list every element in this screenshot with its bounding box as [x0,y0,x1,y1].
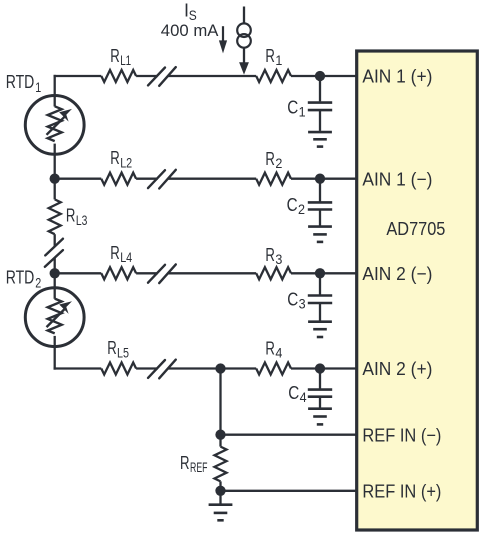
arrowhead current source into row1 [239,62,249,74]
svg-text:AIN 1 (+): AIN 1 (+) [362,66,432,87]
wire row2 into AIN 1 (-) [291,178,357,180]
RTD1 arrowhead [59,109,72,122]
capacitor C4 plates [308,388,332,391]
resistor R2 [256,173,291,185]
wire RTD1 bottom lead [54,144,56,179]
svg-text:1: 1 [299,105,306,120]
line break row2 [148,170,176,189]
svg-text:RTD: RTD [6,268,35,288]
current source IS symbol [237,23,251,47]
RTD1 element zigzag [48,106,62,141]
svg-text:R: R [66,206,76,226]
wire row3 left segment [55,272,102,274]
svg-text:C: C [287,290,298,310]
junction node row3/C3 [315,268,325,278]
svg-text:400 mA: 400 mA [161,21,219,40]
wire RL3 bottom lead [54,234,56,247]
wire row1 into AIN 1 (+) [291,75,357,77]
svg-text:AIN 2 (+): AIN 2 (+) [362,358,432,379]
ground below Rref [209,505,233,521]
svg-text:AIN 2 (−): AIN 2 (−) [362,263,432,284]
wire RTD2 bottom lead [54,336,56,370]
RTD2 sensor circle [25,288,84,347]
svg-text:L1: L1 [120,53,131,68]
wire row3 mid segment [136,272,158,274]
junction node row1/C1 [315,71,325,81]
svg-text:R: R [265,245,275,265]
line break row4 [148,360,176,379]
wire RL3 top lead [54,179,56,200]
wire current source bottom lead [243,48,245,65]
wire current source top lead [243,7,245,24]
RTD2 element zigzag [48,299,62,334]
wire row4 left segment [54,367,102,369]
junction node row4/Rref [215,363,225,373]
wire row1 mid segment [136,75,158,77]
resistor RL3 [49,199,61,234]
svg-text:3: 3 [299,297,306,312]
resistor R1 [256,70,291,82]
resistor RL5 [101,363,136,375]
svg-text:3: 3 [275,252,282,267]
wire C4 bottom lead [319,397,321,409]
resistor RL4 [101,267,136,279]
junction node REF IN (+) [215,486,225,496]
svg-text:L3: L3 [76,213,88,228]
wire row2 left segment [55,178,102,180]
resistor RL1 [101,70,136,82]
IC U1 AD7705 body [357,51,478,530]
line break RL3 (vertical wire) [45,239,63,267]
svg-text:REF: REF [190,460,208,475]
svg-text:L2: L2 [120,156,132,171]
wire row4 segment through Rref node [168,367,256,369]
resistor RREF [215,447,227,482]
wire REF IN (-) [221,434,357,436]
svg-text:AD7705: AD7705 [386,218,445,239]
resistor RL2 [101,173,136,185]
svg-text:4: 4 [275,346,282,361]
svg-text:R: R [110,46,120,66]
wire row3 into AIN 2 (-) [291,272,357,274]
svg-text:REF IN (+): REF IN (+) [362,480,441,501]
junction node row2 left [50,174,60,184]
arrow 400 mA shaft [222,26,224,42]
wire row1 segment to R1 [168,75,256,77]
resistor R4 [256,363,291,375]
wire C3 top lead [319,273,321,295]
wire REF IN (+) [221,490,357,492]
svg-text:L4: L4 [120,250,132,265]
svg-text:R: R [265,339,275,359]
line break row1 [148,67,176,86]
ground below C2 [308,227,332,242]
svg-text:REF IN (−): REF IN (−) [362,424,441,445]
junction node row3 left [50,268,60,278]
wire row2 mid segment [136,178,158,180]
svg-text:C: C [287,195,298,215]
svg-text:1: 1 [275,53,282,68]
RTD2 arrow shaft [47,309,65,327]
wire C2 bottom lead [319,210,321,227]
svg-text:1: 1 [35,80,41,95]
svg-text:R: R [107,338,117,358]
wire row4 mid segment [136,367,158,369]
svg-text:2: 2 [298,202,305,217]
svg-text:C: C [288,383,299,403]
wire Rref top lead [219,435,221,447]
svg-text:AIN 1 (−): AIN 1 (−) [362,168,432,189]
svg-text:2: 2 [35,275,41,290]
svg-text:R: R [180,453,190,473]
wire row3 segment to R3 [168,272,256,274]
RTD1 sensor circle [25,96,84,155]
svg-text:R: R [265,149,275,169]
RTD1 arrow shaft [47,117,65,135]
svg-text:R: R [110,243,120,263]
line break row3 [148,264,176,283]
wire row4 node down to REF IN (-) node [219,369,221,435]
wire row2 segment to R2 [168,178,256,180]
svg-text:R: R [110,148,120,168]
wire RTD2 top lead [54,273,56,299]
capacitor C2 plates [308,201,332,204]
svg-text:R: R [265,46,275,66]
junction node row2/C2 [315,174,325,184]
wire C1 bottom lead [319,110,321,131]
ground below C1 [308,132,332,147]
junction node row4/C4 [315,363,325,373]
ground below C3 [308,322,332,337]
RTD2 arrowhead [59,301,72,314]
svg-text:RTD: RTD [6,72,35,92]
ground below C4 [308,409,332,425]
wire row4 into AIN 2 (+) [291,367,357,369]
svg-text:4: 4 [300,390,307,405]
wire RTD1 top lead [54,75,56,107]
capacitor C3 plates [308,294,332,297]
resistor R3 [256,267,291,279]
svg-text:L5: L5 [117,345,129,360]
wire C4 top lead [319,369,321,390]
wire C2 top lead [319,179,321,203]
arrowhead 400 mA [219,40,227,53]
wire ground lead below REF IN (+) node [219,491,221,505]
wire into row3 node [54,258,56,274]
wire C1 top lead [319,76,321,101]
capacitor C1 plates [308,101,332,104]
svg-text:2: 2 [275,156,282,171]
svg-text:C: C [287,97,298,117]
wire C3 bottom lead [319,303,321,322]
wire row1 left segment [54,75,102,77]
wire Rref bottom lead [219,481,221,490]
junction node REF IN (-) [215,430,225,440]
